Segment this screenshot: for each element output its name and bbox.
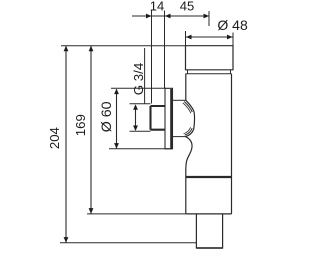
dimension line D48 bbox=[186, 36, 234, 38]
valve body left edge upper bbox=[185, 74, 187, 101]
dimension line 169 bbox=[90, 46, 92, 214]
valve body right edge bbox=[231, 74, 233, 214]
arrowhead D48 right bbox=[227, 35, 233, 40]
arrowhead 204 bottom bbox=[64, 237, 69, 243]
top reference line bbox=[61, 45, 186, 47]
leader line G34 bbox=[144, 48, 146, 104]
extension line G34 top bbox=[130, 103, 151, 105]
svg-text:45: 45 bbox=[180, 0, 194, 14]
dimension line 204 bbox=[65, 46, 67, 243]
extension line D60 top bbox=[111, 87, 166, 89]
dimension arrow G34 bbox=[135, 106, 137, 129]
extension tick D48 left bbox=[185, 31, 187, 46]
dimension line chain 14/45 bbox=[132, 15, 209, 17]
arrowhead 14 left bbox=[146, 14, 152, 19]
extension line D60 bottom bbox=[109, 148, 173, 150]
outlet pipe bbox=[196, 214, 222, 248]
svg-text:Ø 48: Ø 48 bbox=[217, 17, 248, 33]
cap neck groove bbox=[186, 70, 232, 74]
svg-text:Ø 60: Ø 60 bbox=[99, 101, 115, 132]
arrowhead G34 up bbox=[133, 104, 138, 110]
extension tick D48 right bbox=[232, 33, 234, 46]
dome bottom chamfer bbox=[186, 130, 194, 137]
arrowhead 169 top bbox=[89, 46, 94, 52]
arrowhead G34 down bbox=[133, 126, 138, 132]
dome bulge edge bbox=[193, 111, 196, 130]
svg-text:G 3/4: G 3/4 bbox=[131, 63, 146, 96]
dome top chamfer bbox=[186, 100, 194, 111]
arrowhead 204 top bbox=[64, 46, 69, 52]
outlet pipe bottom emphasis bbox=[196, 247, 222, 249]
extension tick pipe axis bbox=[208, 11, 210, 26]
connector top line bbox=[173, 99, 186, 101]
arrowhead D60 bottom bbox=[114, 143, 119, 149]
body bottom edge bbox=[186, 213, 232, 215]
valve top cap bbox=[186, 46, 234, 70]
body separator thick line bbox=[186, 176, 232, 178]
svg-text:204: 204 bbox=[47, 127, 62, 149]
extension line bottom 204 bbox=[60, 242, 196, 244]
wall flange rosette bbox=[165, 88, 173, 149]
connector bottom line bbox=[173, 136, 186, 138]
flange shadow edge bbox=[170, 89, 172, 148]
extension line wall face bbox=[164, 11, 166, 89]
svg-text:169: 169 bbox=[73, 114, 88, 136]
arrowhead 169 bottom bbox=[89, 208, 94, 214]
arrowhead shared 14/45 bbox=[165, 14, 171, 19]
arrowhead D60 top bbox=[114, 89, 119, 95]
dimension line D60 bbox=[116, 89, 118, 148]
extension line bottom 169 bbox=[87, 213, 186, 215]
arrowhead D48 left bbox=[186, 35, 192, 40]
outlet throat curve bbox=[186, 137, 193, 214]
push button bbox=[151, 106, 166, 130]
svg-text:14: 14 bbox=[150, 0, 164, 14]
arrowhead 45 right bbox=[204, 14, 210, 19]
extension line G34 bottom bbox=[130, 130, 151, 132]
extension line button face bbox=[151, 11, 153, 104]
